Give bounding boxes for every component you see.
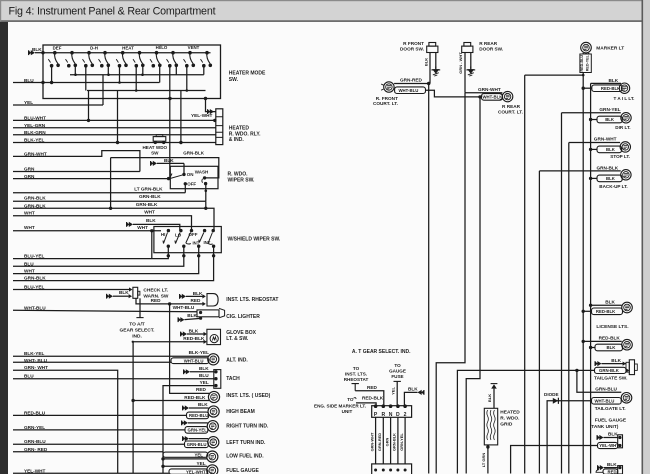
svg-text:HI/LO: HI/LO [156,45,168,50]
license lt lamp 2 [622,339,633,350]
r wdo switch arm [170,174,184,179]
pill BLK stop [597,146,622,153]
svg-text:YEL: YEL [24,100,33,105]
diode symbol [553,398,558,404]
node lic2 b [589,346,592,349]
wire heater rail A tap [74,66,76,75]
wire grid feed [493,389,495,409]
svg-text:LICENSE LTS.: LICENSE LTS. [596,324,628,330]
pill BLK backup [597,175,622,182]
svg-text:BLK: BLK [424,58,429,66]
svg-text:R: R [381,412,385,418]
wiper arm INT1 [199,233,204,243]
svg-text:BLU-WHT: BLU-WHT [24,115,46,120]
svg-text:UNIT: UNIT [342,409,353,414]
wire bus RED-BLK right [582,73,584,474]
wire console down GRN-BLK [397,417,399,464]
svg-text:IND.: IND. [132,333,142,339]
svg-text:GEAR SELECT.: GEAR SELECT. [120,328,155,334]
node WHT2 j [150,229,153,232]
wire RED used [170,392,210,394]
svg-text:GRN-BLK: GRN-BLK [183,151,204,156]
pill GRN-YEL rt [185,427,208,434]
wiper arm HI [163,233,168,244]
bullet tailgate [626,368,629,372]
wire RED-BLK tail [583,87,592,89]
node WHT-BLK j [478,95,481,98]
svg-text:YEL-WHT: YEL-WHT [191,113,213,118]
svg-text:DIR LT.: DIR LT. [615,125,630,130]
heater switch unit 1 [53,51,57,55]
wire YEL tach [163,386,214,474]
svg-text:RED-BLK: RED-BLK [183,336,205,341]
wire BLU bus [13,82,43,84]
wire bus BLK right [590,83,592,473]
wiper top contact 4 [203,229,206,232]
wire RED bottom [596,470,603,473]
wire RED-BLK lic2 [583,340,622,342]
node GRN-BLK drop [109,207,112,210]
node low fuel j [161,457,164,460]
wire GRN-WHT stop [569,142,620,144]
pill RED bottom [603,469,618,474]
cig lighter body [197,310,219,317]
svg-text:GRN- RED: GRN- RED [24,447,48,452]
node lic1 a [589,304,592,307]
wire console down GRN-YEL [404,417,406,464]
svg-text:WHT: WHT [24,211,35,216]
glove box body [207,329,221,344]
node RED junction [168,302,171,305]
wiper arm OFF [186,233,191,245]
stub rheostat [352,384,359,391]
pill WHT-BLU alt [171,358,209,364]
svg-text:BLK: BLK [607,345,617,350]
pill BLK dir [597,116,622,123]
wire YEL console [396,381,398,405]
bullet check bottom [129,294,132,298]
wire GRN-BLK bus 2 [13,200,206,202]
svg-text:RED: RED [151,298,162,303]
svg-text:RED-BLK: RED-BLK [362,395,384,400]
svg-text:(TANK UNIT): (TANK UNIT) [590,424,619,430]
wire YEL bus [13,104,103,106]
wire RED-BLK glove [133,341,204,343]
node OFF contact [184,182,187,185]
svg-text:WHT-BLK: WHT-BLK [483,95,504,100]
pill GRN-BLU lt [185,441,209,448]
wire LT GRN-BLK bus [13,192,185,194]
wire low fuel bottom [163,458,207,460]
wire heater drop to pivot [169,66,171,179]
pill YEL-WHT fuel [598,442,618,448]
svg-text:GRN-BLK: GRN-BLK [392,433,397,451]
heated r wdo grid body [484,408,497,445]
ground front door [435,67,437,70]
wire tailgate lt feed [577,370,621,392]
node RED-BLK used j [131,399,134,402]
wire heater to relay [206,99,216,112]
svg-text:WHT-BLU: WHT-BLU [399,88,419,93]
svg-text:GRN-YEL: GRN-YEL [24,425,45,430]
svg-text:R FRONT: R FRONT [403,41,424,46]
high beam lamp [208,406,219,417]
title bar [0,0,642,22]
svg-text:2: 2 [404,412,407,418]
wire wiper out 3 [13,256,199,274]
tailgate lt lamp [621,393,632,404]
svg-text:INST. LTS. ( USED): INST. LTS. ( USED) [226,393,270,399]
svg-text:T A I L LT.: T A I L LT. [614,96,635,101]
wire WHT-BLU low bus [13,361,171,363]
wire GRN-WHT jog [13,151,140,172]
svg-text:BLK: BLK [608,432,618,437]
wire heater drop 117 [117,91,119,143]
stop lt lamp [620,142,630,152]
connector BLK rheostat [182,294,186,299]
wire TO A/T stub [139,298,141,304]
svg-text:RED: RED [191,298,202,303]
wire right turn top [188,422,208,424]
wire BLK highbeam [189,407,209,409]
wire bus rear-door jog [436,93,465,474]
svg-text:BLU-YEL: BLU-YEL [24,284,45,289]
console top node 2 [382,404,386,408]
heater switch unit 5 [121,51,125,55]
node BLK-YEL j2 [179,141,182,144]
wire GRN-BLK bus 3 [13,208,214,230]
svg-text:R. FRONT: R. FRONT [376,96,398,101]
node BLU-WHT junction [87,119,90,122]
svg-text:WHT-BLU: WHT-BLU [595,399,615,404]
pill YEL lowfuel [163,452,208,457]
wire wash drop 2 [205,201,207,208]
svg-text:FUSE: FUSE [391,374,403,379]
wire diode feed [547,401,591,474]
wire grid ground [487,445,489,474]
svg-text:YEL: YEL [200,380,209,385]
wiper bottom contact 4 [212,245,215,248]
wire front door leg BLK [429,53,431,84]
svg-text:BLK: BLK [119,290,129,295]
wire console down GRN-WHT [375,417,377,464]
svg-text:RHEOSTAT: RHEOSTAT [344,377,369,382]
gear switch box bottom [372,464,412,474]
ground rear door [470,67,472,70]
connector arrow relay [210,109,214,114]
wire rear door leg GRN-WHT [464,53,466,93]
connector BLK check [109,294,113,299]
relay HEATED R WDO RLY body [216,109,223,145]
svg-text:LT. & SW.: LT. & SW. [226,336,249,342]
svg-text:WIPER SW.: WIPER SW. [228,178,256,184]
wire BLK backup [591,177,597,179]
connector BLK console [418,390,422,395]
svg-text:GRN-BLK: GRN-BLK [599,368,620,373]
svg-text:SW.: SW. [229,77,239,83]
svg-text:WHT-BLU: WHT-BLU [24,305,46,310]
wiper arm LO [175,233,180,244]
svg-text:BLU-YEL: BLU-YEL [24,253,45,258]
gear console box [372,406,412,418]
wire GRN-WHT low corner [13,370,118,473]
svg-text:RED: RED [196,387,207,392]
pill WHT-BLK court2 [482,94,503,101]
node lic2 a [582,340,585,343]
wire BLK wiper2 [133,224,180,230]
svg-text:STOP LT.: STOP LT. [610,154,630,159]
svg-text:TO: TO [353,366,360,371]
wire BLK rheostat [186,295,203,297]
heater switch unit 8 [171,51,175,55]
wire BLU low bus [13,378,214,380]
node marker feed [582,74,585,77]
node fuel gauge j [161,465,164,468]
svg-text:BLK: BLK [199,366,209,371]
r front door switch [429,43,436,47]
svg-text:WASH: WASH [195,169,209,174]
wire BLK lic1 [591,304,622,306]
heater switch unit 10 [205,51,209,55]
wire RED console [355,391,384,406]
svg-text:BLK: BLK [606,176,616,181]
connector right turn [184,420,188,425]
wire left indicator bus A [169,304,171,393]
svg-text:GRN-BLK: GRN-BLK [24,203,46,208]
wire bus front-door BLK [428,84,430,474]
wire GRN-BLU bus [13,443,185,445]
pill RED-BLK lic1 [592,308,623,315]
wire BLK-GRN bus [13,134,216,136]
svg-text:LT GRN: LT GRN [481,453,486,468]
svg-text:RED: RED [608,469,617,474]
svg-text:RED-BLK: RED-BLK [601,86,621,91]
wire BLK tach [190,371,214,373]
wire bus GRN-YEL right [561,113,563,474]
node backup j [589,177,592,180]
svg-text:YEL: YEL [197,461,206,466]
wire WHT bus 1 [13,216,192,231]
node wash drop [205,190,208,193]
svg-text:GRN: GRN [24,167,35,172]
svg-text:RED-YEL: RED-YEL [586,54,590,71]
wire BLK to ON [183,163,185,174]
wire GRN-RED bus [13,451,163,453]
wire GRN bus 2 [13,178,169,180]
r wdo wiper switch box [170,166,218,188]
wire wiper out 2 [13,256,184,266]
svg-text:LEFT TURN IND.: LEFT TURN IND. [226,440,266,446]
console bottom node 4 [396,469,399,472]
check lt warn sw body [133,287,138,298]
bottom connector body [618,466,623,474]
svg-text:SW: SW [151,150,159,155]
connector grid top [491,384,497,388]
svg-text:ENG. SIDE MARKER LT.: ENG. SIDE MARKER LT. [314,403,366,408]
pill WHT-BLU court [395,87,426,94]
wire GRN bus 1 [13,171,140,173]
svg-text:GRN-WHT: GRN-WHT [478,87,501,92]
svg-text:TAILGATE LT.: TAILGATE LT. [595,406,626,412]
wire BLK bottom [604,467,618,469]
svg-text:GRID: GRID [500,421,513,427]
svg-text:GRN-BLK: GRN-BLK [597,165,619,170]
svg-text:R. WDO.: R. WDO. [500,415,519,421]
console bottom node 2 [382,469,385,472]
tach terminals [214,370,217,373]
svg-text:GRN-YEL: GRN-YEL [188,428,208,433]
node a/t corner [132,341,134,343]
svg-text:GRN-YEL: GRN-YEL [599,107,620,112]
r rear court lt lamp [502,91,512,101]
wire bus marker-left [524,75,526,473]
wire WHT-BLU court [426,90,482,97]
connector BLK heater feed [31,50,35,55]
svg-text:RED-BLK: RED-BLK [184,395,206,400]
wire BLK fuel [604,437,618,439]
wire RED-BLK used [133,400,209,402]
svg-text:YEL-WHT: YEL-WHT [186,469,206,474]
svg-text:GRN-BLK: GRN-BLK [24,196,46,201]
svg-text:GRN-BLU: GRN-BLU [187,442,207,447]
svg-text:BLU: BLU [199,373,209,378]
wiper top contact 3 [190,229,193,232]
pill YEL-WHT fg [169,469,208,474]
wire rail B taps [85,66,87,91]
wire BLK glove [187,333,204,335]
wire heater drop to BLU-WHT [88,91,90,121]
wiper top contact 2 [179,229,182,232]
svg-text:BLK: BLK [607,462,617,467]
svg-text:D-H: D-H [90,46,98,51]
wire bus GRN-BLK right [538,171,540,474]
wire GRN-RED court [394,83,429,85]
stub gauge fuse [394,380,401,382]
wire BLK check [113,295,129,297]
node rail A taps [74,73,77,76]
connector BLK wiper [153,161,157,166]
heater switch unit 2 [70,51,74,55]
svg-text:GRN-BLK: GRN-BLK [139,194,161,199]
svg-text:BLK: BLK [487,394,492,402]
connector BLK highbeam [185,405,189,410]
wire GRN-YEL bus [13,429,185,431]
w/shield wiper switch box [154,227,221,253]
wire YEL-WHT fuel [511,446,598,474]
fuel gauge lamp [207,465,218,474]
wire RED check [136,298,203,304]
wire marker to buses [582,53,584,54]
svg-text:W/SHIELD WIPER SW.: W/SHIELD WIPER SW. [228,237,281,243]
svg-text:COURT. LT.: COURT. LT. [373,101,398,106]
svg-text:BLK: BLK [187,313,197,318]
node BLK-YEL j1 [116,141,119,144]
wire heater rail A tap [175,66,177,75]
svg-text:YEL: YEL [195,452,204,457]
svg-text:BLK: BLK [189,329,199,334]
node tail j [582,87,585,90]
connector left turn [185,436,189,441]
svg-text:BLK: BLK [611,358,621,363]
svg-text:RED-BLU: RED-BLU [580,55,584,72]
svg-text:FUEL GAUGE: FUEL GAUGE [595,417,627,423]
wire OFF to LT GRN-BLK [184,184,186,193]
svg-text:HEAT WDO: HEAT WDO [142,145,167,150]
node stop j [589,148,592,151]
svg-text:HEAT: HEAT [122,46,134,51]
svg-text:GRN-WHT: GRN-WHT [369,432,374,451]
wire heater drop 181 [180,91,182,143]
svg-text:GRN-BLU: GRN-BLU [595,387,617,392]
svg-text:ALT. IND.: ALT. IND. [226,357,248,363]
svg-text:ON: ON [187,172,194,177]
connector bottom blk [600,465,604,470]
wire heater rail A tap [142,66,144,75]
svg-text:DOOR SW.: DOOR SW. [479,47,503,52]
svg-text:GRN-RED: GRN-RED [377,433,382,451]
console bottom node 3 [389,469,392,472]
svg-text:GRN-BLK: GRN-BLK [136,202,158,207]
svg-text:D: D [396,412,400,418]
wire GRN-WHT court2 [465,92,502,94]
svg-text:BLK: BLK [606,147,616,152]
node heater bottom 170 [168,97,171,100]
svg-text:WHT-BLU: WHT-BLU [184,358,204,363]
heater switch unit 3 [87,51,91,55]
heater switch unit 9 [188,51,192,55]
wire BLK-YEL bus [13,142,216,144]
svg-text:BLK: BLK [198,402,208,407]
svg-text:YEL: YEL [391,387,396,395]
pill WHT-BLU tg [592,398,622,405]
svg-text:BLK: BLK [164,158,174,163]
svg-text:WHT-BLU: WHT-BLU [173,305,195,310]
left turn lamp [208,437,219,448]
node heater feed [41,51,44,54]
console top node 4 [396,404,400,408]
svg-text:HEATER MODE: HEATER MODE [229,71,266,77]
svg-text:TAILGATE SW.: TAILGATE SW. [594,375,627,381]
svg-text:BLK-YEL: BLK-YEL [24,138,45,143]
node heater bottom 205 [204,97,207,100]
svg-text:LOW FUEL IND.: LOW FUEL IND. [226,453,264,459]
connector BLK glove [183,331,187,336]
svg-text:BLK: BLK [193,291,203,296]
node BLU tap [118,81,121,84]
svg-text:RED: RED [367,385,378,390]
svg-text:TACH: TACH [226,376,240,382]
wire WHT2 drop [151,231,153,259]
r front court lt lamp [384,82,394,92]
wire wiper out 1 [13,256,168,259]
wash switch [203,176,206,179]
node rail B taps [135,89,138,92]
wire heater rail A tap [203,66,205,75]
wire RED-BLK console [356,403,376,406]
wiper top contact 1 [167,229,170,232]
wiper bottom contact 3 [197,245,200,248]
svg-text:YEL-GRN: YEL-GRN [24,123,46,128]
pill RED-BLK tail [592,85,622,92]
svg-text:GLOVE BOX: GLOVE BOX [226,330,256,336]
wire BLU-YEL bus 2 [13,289,129,291]
svg-text:WHT: WHT [137,225,148,230]
wire BLK dir [591,119,597,121]
wire BLK-YEL low bus [13,355,208,357]
svg-text:GRN- WHT: GRN- WHT [24,365,48,370]
node BLU rail [41,81,44,84]
svg-text:GRN-BLK: GRN-BLK [24,275,46,280]
